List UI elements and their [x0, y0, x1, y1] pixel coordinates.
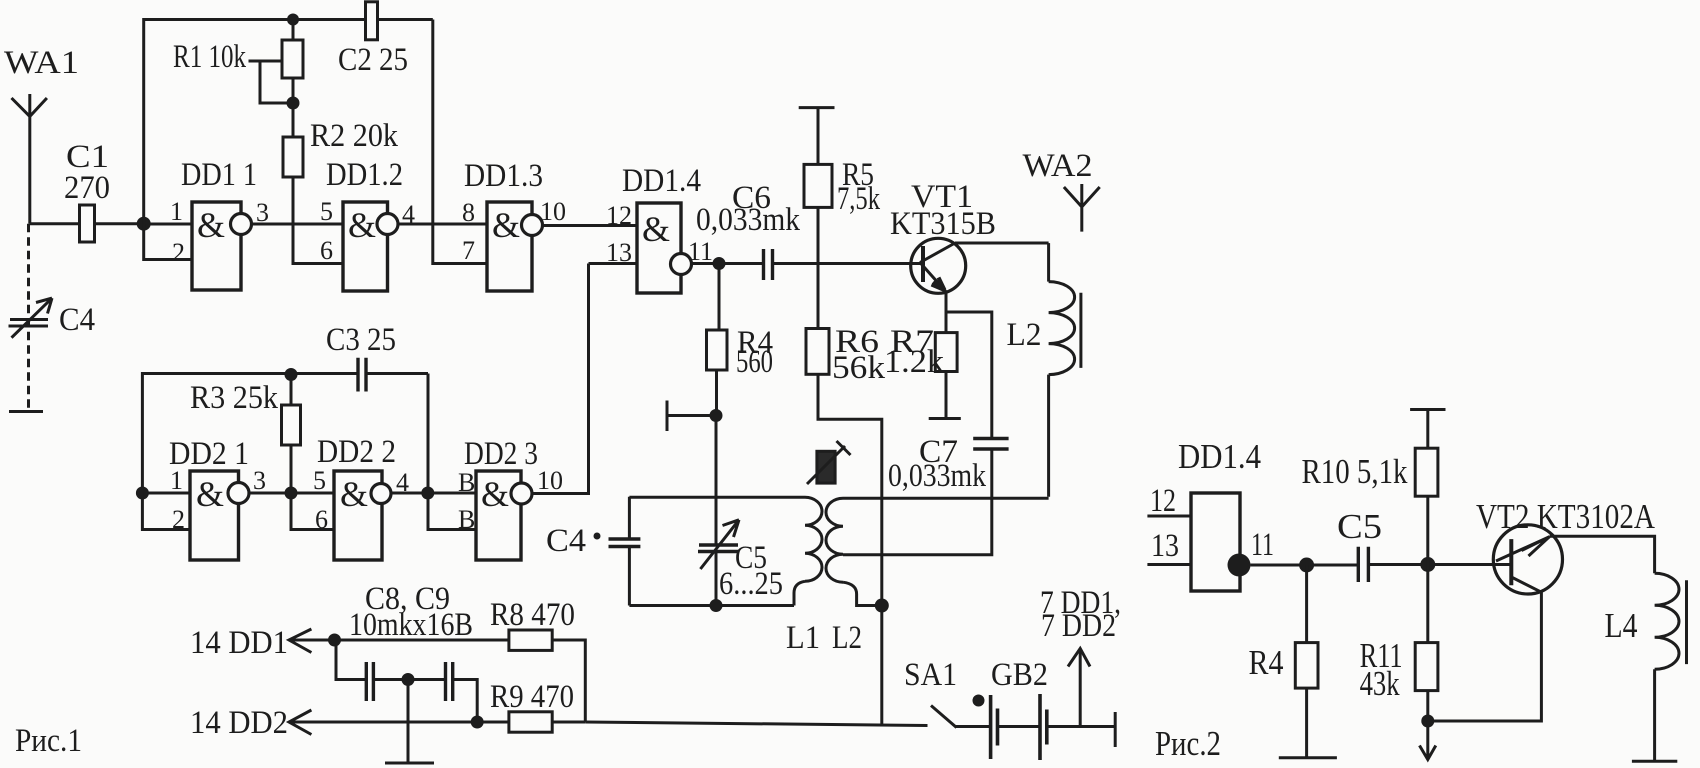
wire DD1.2 out to DD1.3 pin 8 — [398, 223, 487, 226]
junction dot R3 top — [285, 368, 298, 381]
svg-text:8: 8 — [462, 198, 475, 227]
wire R4 node down to C5 — [715, 416, 718, 546]
capacitor C1 270 — [64, 139, 110, 242]
svg-text:0,033mk: 0,033mk — [888, 458, 986, 494]
wire antenna to C1 — [30, 222, 80, 225]
variable capacitor C4 (antenna trimmer) — [9, 224, 96, 412]
svg-text:L1: L1 — [786, 620, 820, 656]
junction dot transformer bottom node — [875, 599, 889, 613]
ground bar below R4 (fig.2) — [1279, 756, 1337, 759]
svg-text:C4: C4 — [59, 302, 95, 338]
svg-text:&: & — [340, 474, 368, 514]
svg-text:DD1.3: DD1.3 — [464, 158, 543, 194]
svg-text:6: 6 — [320, 236, 333, 265]
svg-text:R1 10k: R1 10k — [173, 39, 246, 75]
wire C2 to loop right side — [378, 18, 433, 21]
inductor L2 (output coil) — [1007, 243, 1081, 497]
wire SA1 to GB2 — [955, 725, 991, 728]
wire 14 DD2 arrow — [190, 705, 509, 741]
ground bar below R7 — [929, 417, 961, 420]
wire pin 13 (fig.2) — [1147, 563, 1191, 566]
svg-text:L2: L2 — [1007, 317, 1042, 353]
wire C3 to loop right side — [366, 372, 428, 375]
resistor R1 10k with trimmer tap — [173, 20, 303, 104]
antenna WA2 — [1023, 148, 1100, 232]
wire node A to DD1.1 pin 1 — [144, 223, 192, 226]
svg-text:56k: 56k — [832, 350, 886, 386]
inductor L4 (fig.2) — [1605, 573, 1687, 761]
junction dot R11 bottom (fig.2) — [1421, 715, 1434, 728]
variable capacitor C5 6...25 — [698, 520, 783, 606]
wire DD2.3 out riser to DD1.4 pin 13 — [589, 262, 638, 265]
svg-text:R3 25k: R3 25k — [190, 380, 278, 416]
junction dot 14 DD2 node — [471, 716, 484, 729]
svg-text:11: 11 — [688, 237, 713, 266]
wire tank top rail left — [629, 496, 805, 499]
wire C5 to VT2 base (fig.2) — [1368, 563, 1511, 566]
wire R3 node to DD2.2 pin 6 — [291, 493, 334, 530]
resistor R4 560 — [707, 264, 774, 416]
wire C7 bottom to lower node — [843, 449, 992, 555]
svg-text:10: 10 — [540, 197, 566, 226]
svg-text:Рис.2: Рис.2 — [1155, 724, 1221, 763]
wire pin 12 (fig.2) — [1147, 515, 1191, 518]
power arrow 7 DD1, 7 DD2 — [1040, 585, 1121, 727]
svg-text:C4: C4 — [546, 523, 586, 559]
junction dot R1/R2 — [287, 97, 300, 110]
svg-text:VT2 KT3102A: VT2 KT3102A — [1476, 497, 1656, 536]
node A junction dot — [137, 217, 151, 231]
svg-text:0,033mk: 0,033mk — [696, 202, 800, 238]
svg-text:B: B — [458, 468, 475, 497]
wire DD2.3 out up to DD1.4 pin 13 row — [532, 264, 589, 494]
svg-text:DD2 2: DD2 2 — [317, 434, 396, 470]
svg-text:DD1 1: DD1 1 — [181, 157, 257, 193]
wire VT1 collector to L2 — [955, 242, 1049, 245]
svg-text:R9 470: R9 470 — [490, 679, 574, 715]
logic gate DD2.1 — [169, 436, 266, 560]
capacitor C6 0,033mk — [696, 180, 800, 280]
inductor L1 (transformer primary) — [786, 497, 822, 656]
resistor R10 5,1k (fig.2) — [1302, 410, 1438, 565]
svg-text:12: 12 — [1150, 483, 1176, 519]
svg-text:L4: L4 — [1605, 606, 1638, 645]
svg-text:&: & — [642, 209, 670, 249]
svg-text:7: 7 — [462, 236, 475, 265]
svg-text:14 DD2: 14 DD2 — [190, 705, 288, 741]
junction dot DD2.1 input node — [136, 487, 149, 500]
junction dot R3 bottom — [285, 487, 298, 500]
svg-text:SA1: SA1 — [904, 657, 957, 693]
capacitor C7 0,033mk — [888, 434, 1009, 494]
junction dot R4 top (fig.2) — [1299, 558, 1314, 573]
junction dot DD1.4 output node — [713, 257, 726, 270]
svg-text:&: & — [348, 205, 376, 245]
svg-text:&: & — [492, 205, 520, 245]
resistor R9 470 — [490, 679, 585, 732]
inductor L2 (transformer secondary) — [826, 498, 882, 656]
power rail bar above R10 (fig.2) — [1410, 408, 1445, 411]
wire R6 bottom to riser — [818, 374, 882, 725]
logic gate DD1.4 (fig.2) — [1150, 437, 1274, 591]
logic gate DD1.3 — [462, 158, 566, 291]
svg-text:DD2 3: DD2 3 — [464, 436, 538, 472]
svg-text:2: 2 — [172, 238, 185, 267]
svg-text:WA2: WA2 — [1023, 148, 1093, 184]
common arrow below R11 (fig.2) — [1420, 721, 1436, 760]
svg-text:10mkх16B: 10mkх16B — [349, 607, 473, 643]
wire node to DD2.1 pin 1 — [142, 492, 190, 495]
svg-text:C2 25: C2 25 — [338, 42, 408, 78]
wire DD1.4 out to C5 (fig.2) — [1251, 564, 1359, 567]
capacitor C3 25 — [326, 322, 396, 392]
wire emitter branch to C7 — [946, 312, 992, 437]
wire tank bottom rail left — [629, 604, 794, 607]
logic gate DD1.1 — [170, 157, 269, 290]
antenna WA1 — [4, 45, 79, 224]
terminal bar right end — [1114, 712, 1117, 747]
power rail bar above R5 — [799, 106, 835, 109]
resistor R2 20k — [283, 103, 398, 177]
resistor R3 25k — [190, 375, 301, 494]
svg-text:R4: R4 — [1249, 643, 1284, 682]
svg-text:270: 270 — [64, 170, 110, 206]
wire C6 to VT1 base — [773, 262, 924, 265]
capacitor C5 (fig.2) — [1337, 507, 1382, 582]
battery GB2 — [991, 657, 1048, 760]
wire C3 feedback loop left side — [142, 374, 358, 494]
svg-text:7,5k: 7,5k — [837, 181, 880, 217]
junction dot C8/C9 midpoint — [402, 673, 415, 686]
svg-text:14 DD1: 14 DD1 — [190, 625, 288, 661]
svg-text:&: & — [197, 205, 225, 245]
resistor R7 1.2k — [884, 324, 957, 419]
svg-text:WA1: WA1 — [4, 45, 79, 81]
svg-text:C5: C5 — [1337, 507, 1382, 546]
svg-text:13: 13 — [1151, 528, 1179, 564]
wire DD1.4 out to C6 — [692, 262, 764, 265]
svg-text:DD1.2: DD1.2 — [326, 157, 403, 193]
junction dot R1 top — [287, 14, 299, 26]
svg-text:B: B — [458, 505, 475, 534]
junction dot DD2.2 output node — [421, 487, 434, 500]
logic gate DD1.2 — [320, 157, 415, 291]
transistor VT1 KT315B — [890, 179, 996, 293]
wire loop right to DD1.3 pin 7 — [433, 20, 487, 264]
svg-text:3: 3 — [253, 466, 266, 495]
logic gate DD2.3 — [458, 436, 563, 560]
svg-text:560: 560 — [736, 344, 773, 380]
wire C2 feedback loop left side — [144, 20, 366, 224]
junction dot R10/R11 node (fig.2) — [1420, 557, 1435, 572]
svg-text:10: 10 — [537, 466, 563, 495]
svg-text:R2 20k: R2 20k — [310, 118, 398, 154]
svg-text:7 DD2: 7 DD2 — [1041, 608, 1116, 644]
ground bar below L4 (fig.2) — [1632, 760, 1677, 763]
wire R5 to R6 — [817, 207, 820, 328]
wire R2 to DD1.2 pin 6 — [293, 177, 343, 264]
svg-text:5: 5 — [320, 197, 333, 226]
svg-text:&: & — [481, 474, 509, 514]
svg-text:Рис.1: Рис.1 — [15, 723, 82, 759]
svg-text:R8 470: R8 470 — [490, 597, 575, 633]
svg-text:5: 5 — [313, 466, 326, 495]
wire bottom supply row to SA1 — [585, 722, 927, 726]
resistor R11 43k (fig.2) — [1360, 565, 1438, 722]
svg-text:12: 12 — [606, 201, 632, 230]
wire node to DD2.1 pin 2 — [142, 493, 190, 530]
svg-text:&: & — [196, 474, 224, 514]
svg-text:1: 1 — [170, 466, 183, 495]
wire VT2 collector to L4 (fig.2) — [1550, 536, 1655, 573]
capacitor C4 (tank tap, footnote) — [546, 497, 640, 606]
svg-text:L2: L2 — [832, 620, 862, 656]
adjustable ferrite core of L1/L2 — [807, 441, 851, 484]
wire DD1.3 out to DD1.4 pin 12 — [543, 224, 638, 227]
resistor R5 7,5k — [804, 108, 880, 217]
wire DD2.2 out to DD2.3 pin B — [391, 492, 476, 495]
wire L2 bottom to tank top rail — [843, 497, 1049, 500]
transistor VT2 KT3102A — [1476, 497, 1656, 594]
wire node A to DD1.1 pin 2 — [144, 224, 192, 260]
wire DD2.1 out to node R3 bottom and DD2.2 pin 5 — [249, 492, 334, 495]
resistor R8 470 — [490, 597, 585, 722]
svg-text:KT315B: KT315B — [890, 206, 996, 242]
wire R11 node to VT2 emitter (fig.2) — [1428, 592, 1542, 721]
wire C1 to node A — [95, 222, 144, 225]
junction dot 14 DD1 node — [328, 634, 341, 647]
svg-text:GB2: GB2 — [991, 657, 1048, 693]
svg-text:DD1.4: DD1.4 — [1178, 437, 1261, 476]
svg-text:43k: 43k — [1360, 664, 1400, 703]
wire C8/C9 node to 14 DD1 arrow — [190, 625, 509, 661]
terminal stub left of R4 — [667, 401, 716, 432]
ground bar below C4 — [9, 410, 43, 413]
svg-text:C3 25: C3 25 — [326, 322, 396, 358]
svg-text:6: 6 — [315, 505, 328, 534]
wire GB2 to end bar — [1047, 725, 1115, 728]
svg-text:R10 5,1k: R10 5,1k — [1302, 452, 1408, 491]
switch SA1 — [904, 657, 985, 728]
junction dot R4 bottom — [710, 409, 723, 422]
svg-text:6...25: 6...25 — [719, 566, 783, 602]
logic gate DD1.4 — [606, 163, 713, 293]
svg-text:11: 11 — [1251, 527, 1274, 563]
logic gate DD2.2 — [313, 434, 409, 560]
junction dot C5 bottom — [710, 599, 723, 612]
resistor R6 56k — [806, 324, 886, 386]
resistor R4 (fig.2) — [1249, 565, 1319, 758]
svg-text:DD1.4: DD1.4 — [622, 163, 701, 199]
wire loop right riser to DD2.3 lower pin B — [428, 374, 476, 530]
wire DD1.1 out to DD1.2 pin 5 — [252, 223, 344, 226]
ground below C8/C9 — [385, 680, 434, 764]
svg-text:1: 1 — [170, 197, 183, 226]
wire VT1 emitter to R7 — [945, 292, 948, 333]
capacitors C8, C9 10mk x 16B — [335, 581, 478, 722]
capacitor C2 25 — [338, 2, 408, 78]
